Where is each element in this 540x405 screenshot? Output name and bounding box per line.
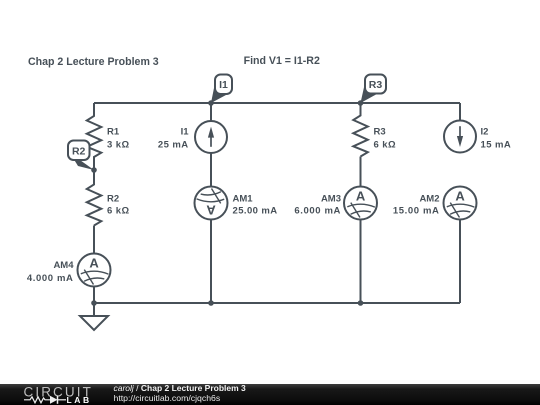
logo resistor squiggle xyxy=(24,397,50,403)
label I1 value xyxy=(158,127,189,151)
svg-text:R3: R3 xyxy=(374,127,386,138)
svg-text:I1: I1 xyxy=(181,127,190,138)
svg-text:AM2: AM2 xyxy=(419,194,439,205)
label AM4 value xyxy=(27,260,74,284)
label AM2 value xyxy=(393,194,440,217)
svg-text:R2: R2 xyxy=(107,194,119,205)
svg-text:25 mA: 25 mA xyxy=(158,140,189,151)
node ground junction xyxy=(91,300,97,306)
svg-text:http://circuitlab.com/cjqch6s: http://circuitlab.com/cjqch6s xyxy=(114,393,221,403)
svg-text:6 kΩ: 6 kΩ xyxy=(374,140,397,151)
logo diode xyxy=(50,396,58,404)
svg-text:15.00 mA: 15.00 mA xyxy=(393,206,440,217)
svg-text:A: A xyxy=(206,203,216,218)
svg-text:25.00 mA: 25.00 mA xyxy=(233,206,278,217)
flag I1 xyxy=(211,75,232,104)
svg-text:AM3: AM3 xyxy=(321,194,341,205)
wire AM3 bottom lead xyxy=(360,220,362,304)
svg-text:A: A xyxy=(455,189,465,204)
resistor R3 xyxy=(353,103,368,157)
wire bottom rail xyxy=(94,302,460,304)
svg-text:3 kΩ: 3 kΩ xyxy=(107,140,130,151)
node I1 junction top xyxy=(208,100,214,106)
svg-text:LAB: LAB xyxy=(67,395,92,405)
label AM1 value xyxy=(233,194,278,217)
svg-text:I1: I1 xyxy=(219,79,228,91)
flag R3 xyxy=(361,75,387,104)
node AM3 junction bottom xyxy=(358,300,364,306)
current source I1 xyxy=(195,121,227,153)
svg-text:A: A xyxy=(356,189,366,204)
svg-text:6.000 mA: 6.000 mA xyxy=(294,206,341,217)
wire AM1 bottom lead xyxy=(210,220,212,304)
wire AM4 bottom lead xyxy=(93,287,95,304)
label AM3 value xyxy=(294,194,341,217)
label I2 value xyxy=(481,127,512,151)
svg-text:R2: R2 xyxy=(72,146,86,158)
label R2 value xyxy=(107,194,130,217)
wire right branch bottom (AM2 bottom lead) xyxy=(459,220,461,304)
node R3 junction top xyxy=(358,100,364,106)
ammeter AM3 xyxy=(344,187,377,220)
node AM1 junction bottom xyxy=(208,300,214,306)
wire top rail xyxy=(94,102,460,104)
svg-text:4.000 mA: 4.000 mA xyxy=(27,273,74,284)
svg-text:R3: R3 xyxy=(369,79,383,91)
label R1 value xyxy=(107,127,130,151)
svg-text:AM1: AM1 xyxy=(233,194,254,205)
wire I1 to AM1 xyxy=(210,153,212,187)
label R3 value xyxy=(374,127,397,151)
svg-text:A: A xyxy=(89,256,99,271)
svg-text:carolj / Chap 2 Lecture Proble: carolj / Chap 2 Lecture Problem 3 xyxy=(114,384,247,393)
svg-text:Chap 2 Lecture Problem 3: Chap 2 Lecture Problem 3 xyxy=(28,56,159,68)
ammeter AM4 xyxy=(78,254,111,287)
svg-text:AM4: AM4 xyxy=(53,260,74,271)
svg-text:R1: R1 xyxy=(107,127,120,138)
node R2 junction left xyxy=(91,167,97,173)
wire R2 bottom to AM4 xyxy=(93,226,95,254)
svg-text:I2: I2 xyxy=(481,127,489,138)
svg-text:15 mA: 15 mA xyxy=(481,140,512,151)
footer bar xyxy=(0,384,540,405)
current source I2 xyxy=(444,121,476,153)
resistor R2 xyxy=(87,170,102,226)
wire right branch top (I2 top lead) xyxy=(459,103,461,121)
svg-text:6 kΩ: 6 kΩ xyxy=(107,206,130,217)
resistor R1 xyxy=(87,103,102,170)
ground xyxy=(80,303,108,330)
ammeter AM2 xyxy=(444,187,477,220)
ammeter AM1 xyxy=(195,187,228,220)
wire R3 bottom to AM3 xyxy=(360,157,362,187)
flag R2 xyxy=(68,141,94,171)
wire I1 top lead xyxy=(210,103,212,121)
svg-text:Find V1 = I1-R2: Find V1 = I1-R2 xyxy=(244,55,320,67)
